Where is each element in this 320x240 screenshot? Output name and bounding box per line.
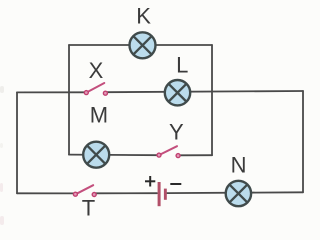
wire bottom row segment switch T to battery bbox=[94, 192, 157, 194]
battery short plate (-) bbox=[164, 189, 167, 200]
lamp K bbox=[130, 32, 156, 58]
svg-text:X: X bbox=[89, 58, 104, 83]
svg-text:T: T bbox=[82, 196, 95, 221]
switch Y bbox=[157, 146, 180, 157]
lamp N bbox=[226, 181, 251, 206]
wire inner left vertical bbox=[68, 45, 70, 155]
wire outer right vertical bbox=[302, 91, 304, 192]
wire M/Y row right segment bbox=[178, 154, 212, 156]
switch T bbox=[73, 185, 96, 196]
wire X/L row right segment bbox=[106, 91, 303, 92]
svg-text:K: K bbox=[136, 3, 151, 28]
wire outer left vertical bbox=[16, 92, 18, 193]
svg-text:N: N bbox=[231, 153, 247, 178]
lamp M bbox=[83, 142, 109, 168]
wire top row of inner loop bbox=[69, 44, 212, 46]
scan smudge left edge bbox=[0, 86, 4, 225]
wire bottom row segment battery to corner bbox=[167, 191, 303, 194]
svg-text:L: L bbox=[176, 53, 188, 78]
wire bottom row segment to switch T bbox=[17, 192, 77, 194]
battery - sign bbox=[170, 183, 181, 185]
battery + sign bbox=[145, 180, 155, 182]
switch X bbox=[84, 83, 107, 95]
svg-text:M: M bbox=[90, 103, 108, 128]
battery long plate (+) bbox=[158, 182, 161, 206]
lamp L bbox=[165, 80, 190, 105]
wire M/Y row left segment bbox=[69, 154, 160, 157]
wire X/L row left segment bbox=[17, 91, 86, 93]
wire inner right vertical bbox=[211, 45, 213, 155]
svg-text:Y: Y bbox=[169, 120, 184, 145]
battery B1 bbox=[145, 176, 181, 206]
